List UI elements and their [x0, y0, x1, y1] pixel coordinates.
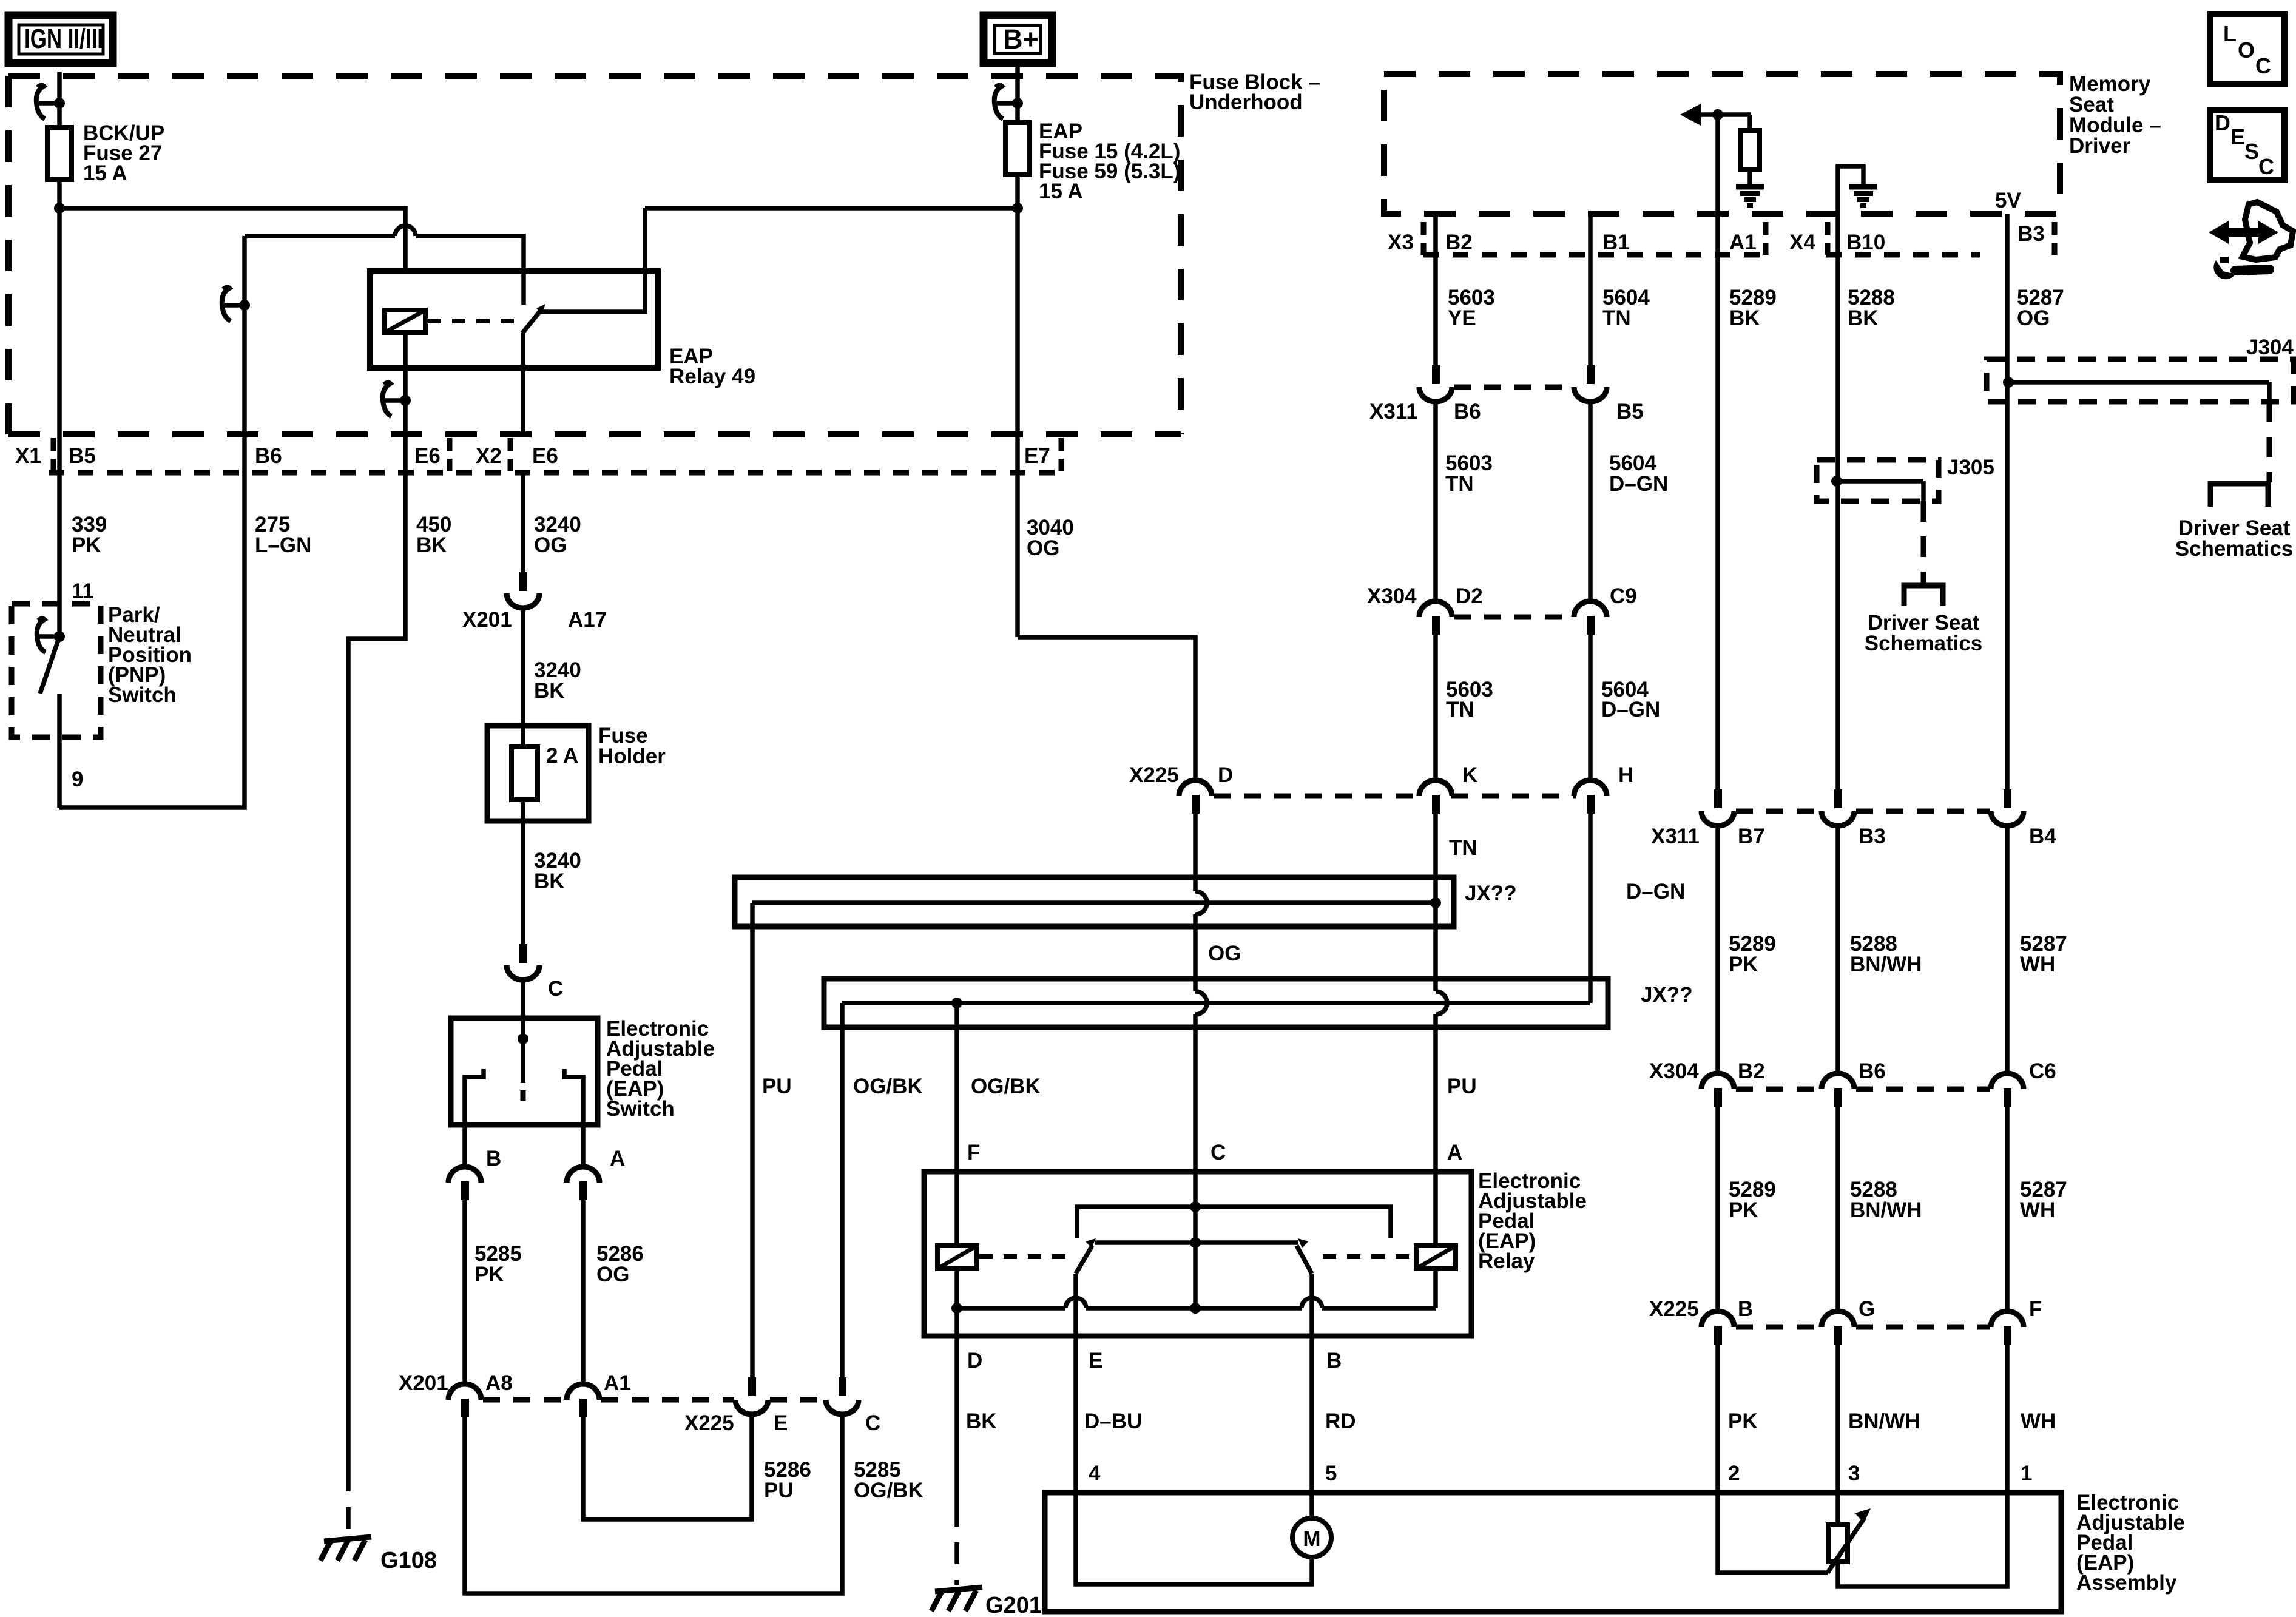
connector X311 B4 (bar + cup): [1991, 789, 2024, 826]
power tag B+: [984, 15, 1052, 63]
dashed line X311 B6-B5: [1454, 385, 1574, 390]
svg-text:B3: B3: [2017, 222, 2045, 246]
label 5604 D-GN: [1609, 451, 1668, 496]
bus bar 1 wire: [752, 900, 1436, 905]
svg-text:G201: G201: [985, 1593, 1042, 1617]
svg-text:D: D: [967, 1349, 982, 1372]
dashed link coil A to switch: [1323, 1254, 1414, 1259]
svg-text:Holder: Holder: [598, 744, 666, 768]
svg-text:B6: B6: [1859, 1059, 1886, 1083]
svg-text:J304: J304: [2246, 336, 2294, 359]
svg-text:OG: OG: [1208, 942, 1241, 965]
svg-text:X225: X225: [1649, 1297, 1699, 1321]
wire C: EAP fuse feed to relay: [645, 206, 1018, 211]
connector X225 E (bar + cup): [735, 1377, 768, 1414]
EAP switch right contact: [564, 1069, 583, 1125]
separator B3 right: [2052, 222, 2058, 255]
connector X304 C6 (arc + bar): [1991, 1073, 2024, 1107]
bus tap clip on 275 L-GN column: [222, 287, 250, 321]
label EAP Fuse 15 (4.2L) Fuse 59 (5.3L) 15 A: [1039, 120, 1180, 203]
dashed line X311 B7-B3: [1736, 809, 1821, 814]
svg-text:X4: X4: [1789, 231, 1815, 254]
svg-text:B6: B6: [1454, 400, 1481, 424]
label 5285 OG/BK: [854, 1458, 923, 1502]
label 5287 WH: [2020, 932, 2067, 976]
svg-text:D–GN: D–GN: [1626, 880, 1685, 903]
svg-text:Switch: Switch: [606, 1097, 675, 1121]
svg-text:G: G: [1859, 1297, 1875, 1321]
module internal resistor: [1740, 115, 1760, 185]
svg-text:JX??: JX??: [1465, 882, 1517, 905]
wire 5289 PK (X304 to X225 B): [1715, 1107, 1720, 1311]
svg-text:C9: C9: [1610, 584, 1637, 608]
node junction EAP fuse output: [1012, 203, 1023, 214]
bus tap clip at EAP fuse: [994, 85, 1023, 119]
label 5289 PK: [1729, 932, 1776, 976]
svg-text:K: K: [1462, 763, 1477, 787]
svg-text:X2: X2: [476, 444, 502, 468]
wire 5289 PK (X311 to X304): [1715, 825, 1720, 1073]
pedal adjust icon: pedal outline: [2243, 202, 2293, 260]
connector X225 B (arc + bar): [1701, 1311, 1734, 1345]
dashed wire to G201: [954, 1505, 959, 1585]
relay 49 output wire (pivot down): [521, 333, 525, 434]
J305 splice wire: [1831, 476, 1923, 501]
label 5603 YE: [1448, 286, 1495, 330]
svg-text:Switch: Switch: [108, 683, 177, 707]
svg-text:Relay: Relay: [1478, 1249, 1535, 1273]
label Fuse Block - Underhood: [1189, 70, 1320, 114]
label 5604 TN: [1602, 286, 1650, 330]
wire D-BU to assembly pin 4: [1073, 1336, 1078, 1493]
J304 splice wire: [2003, 377, 2269, 402]
power tag IGN II/III: [8, 15, 113, 63]
EAP relay blade tip link: [1095, 1207, 1298, 1308]
wire 5289 BK (A1 to X311 B7): [1715, 214, 1720, 789]
svg-text:BK: BK: [1848, 306, 1879, 330]
svg-text:F: F: [2029, 1297, 2042, 1321]
svg-text:Schematics: Schematics: [1865, 632, 1983, 655]
svg-text:B2: B2: [1738, 1059, 1765, 1083]
module internal ground (resistor): [1736, 187, 1764, 206]
svg-text:PK: PK: [474, 1263, 504, 1286]
ground G201: [931, 1587, 982, 1611]
svg-text:D: D: [2215, 110, 2230, 135]
wire PNP to 275 L-GN column: [59, 236, 245, 808]
EAP assembly box: [1045, 1493, 2061, 1612]
connector X304 D2 (arc + bar): [1419, 601, 1452, 635]
wire PU (K column to EAP relay pin A): [1433, 1014, 1438, 1172]
label 5289 PK (lower): [1729, 1178, 1776, 1222]
svg-text:A1: A1: [1729, 231, 1757, 254]
dashed line X225 K-H: [1451, 794, 1576, 799]
label 5286 OG: [596, 1242, 644, 1286]
svg-text:L: L: [2223, 21, 2237, 46]
wire fuse 27 to junction: [57, 180, 62, 432]
svg-text:D2: D2: [1456, 584, 1483, 608]
svg-text:F: F: [967, 1141, 980, 1164]
svg-text:WH: WH: [2020, 953, 2055, 976]
svg-text:X311: X311: [1651, 825, 1700, 848]
svg-text:S: S: [2244, 139, 2259, 164]
relay 49 coil-switch dashed link: [428, 319, 516, 323]
wire BN/WH to assembly pin 3: [1835, 1345, 1840, 1493]
label 339 PK: [72, 513, 107, 557]
wire connector C to EAP switch: [521, 979, 525, 1039]
svg-text:E7: E7: [1024, 444, 1050, 468]
wire switch pin A stub: [581, 1125, 586, 1166]
svg-text:D–GN: D–GN: [1601, 698, 1660, 721]
separator X2 right: [508, 438, 513, 471]
wire 5604 D-GN (X304 to X225 H): [1588, 635, 1593, 780]
dashed line X311 B3-B4: [1856, 809, 1990, 814]
hop D wire over bus bar 2 wire: [1195, 991, 1207, 1014]
wire A1 inside module: [1715, 115, 1720, 214]
wire 5287 WH (X304 to X225 F): [2005, 1107, 2010, 1311]
svg-text:BN/WH: BN/WH: [1850, 1198, 1922, 1222]
wire 5285 PK: [462, 1200, 467, 1383]
EAP relay coil F: [937, 1172, 977, 1269]
separator X2 left: [447, 438, 453, 471]
EAP relay box: [924, 1172, 1471, 1336]
label Electronic Adjustable Pedal (EAP) Relay: [1478, 1169, 1587, 1273]
svg-text:TN: TN: [1449, 836, 1477, 860]
PNP switch blade: [40, 636, 59, 694]
svg-text:PK: PK: [1728, 1409, 1758, 1433]
svg-text:D–GN: D–GN: [1609, 472, 1668, 496]
label 5285 PK: [474, 1242, 522, 1286]
pedal adjust icon: wrench: [2213, 257, 2269, 279]
wire 5287 OG (B3 to J304): [2005, 214, 2010, 382]
connector X304 B6 (arc + bar): [1822, 1073, 1854, 1107]
svg-text:B4: B4: [2029, 825, 2056, 848]
dashed line X225 D-K: [1214, 794, 1420, 799]
bus tap clip in PNP switch: [37, 618, 65, 652]
EAP relay left blade: [1076, 1238, 1096, 1274]
wire pin D (blade E down): [1073, 1274, 1078, 1336]
svg-text:O: O: [2238, 38, 2255, 62]
label 3240 BK (lower): [534, 849, 581, 893]
module internal ground (B10): [1838, 166, 1877, 214]
svg-text:15 A: 15 A: [83, 161, 127, 185]
dashed line X304 B2-B6: [1736, 1087, 1821, 1092]
wire 339 PK (B5 to PNP switch): [57, 432, 62, 638]
relay 49 coil: [385, 310, 425, 333]
wire IGN feed (x=98 top): [57, 72, 62, 127]
svg-text:OG/BK: OG/BK: [853, 1075, 923, 1098]
wire D column to EAP relay pin C: [1193, 1014, 1198, 1172]
module internal arrow (serial data): [1680, 104, 1751, 126]
connector X311 B3 (bar + cup): [1822, 789, 1854, 826]
svg-text:X201: X201: [462, 608, 512, 632]
connector X225 D (arc + bar): [1179, 780, 1212, 814]
wire WH to assembly pin 1: [2005, 1345, 2010, 1493]
connector X304 B2 (arc + bar): [1701, 1073, 1734, 1107]
svg-text:3: 3: [1848, 1462, 1860, 1485]
relay 49 switch blade: [522, 304, 545, 333]
svg-text:C: C: [548, 977, 563, 1001]
J305 dashed branch: [1921, 501, 1926, 586]
wire B: to relay switch contact: [245, 234, 395, 238]
label BCK/UP Fuse 27 15 A: [83, 121, 164, 185]
svg-text:A17: A17: [568, 608, 607, 632]
svg-text:IGN II/III: IGN II/III: [24, 23, 103, 54]
memory seat module dashed box: [1384, 74, 2060, 214]
svg-text:Assembly: Assembly: [2076, 1571, 2177, 1595]
wire 3040 OG down from EAP fuse: [1015, 175, 1020, 637]
wire 5287 OG (J304 to X311 B4): [2005, 382, 2010, 789]
fuse block underhood dashed box: [8, 76, 1181, 434]
svg-text:X1: X1: [15, 444, 41, 468]
svg-text:X311: X311: [1369, 400, 1418, 424]
hop D wire over bus bar 1 wire: [1195, 891, 1207, 914]
connector X201 A1 (arc + bar): [567, 1384, 599, 1417]
svg-text:OG: OG: [534, 533, 567, 557]
svg-text:JX??: JX??: [1641, 983, 1693, 1007]
EAP switch box: [451, 1018, 598, 1125]
module pin row bottom dashed line: [1423, 252, 1980, 258]
svg-text:YE: YE: [1448, 306, 1476, 330]
svg-text:E: E: [2230, 124, 2245, 149]
hop of wire B over coil wire: [395, 226, 416, 236]
dashed line A1 to X225 E: [601, 1397, 734, 1403]
EAP switch actuator: [521, 1039, 525, 1083]
separator X3: [1421, 222, 1427, 255]
svg-text:2: 2: [1728, 1462, 1740, 1485]
svg-text:D: D: [1218, 763, 1233, 787]
svg-text:5: 5: [1325, 1462, 1337, 1485]
svg-text:B2: B2: [1445, 231, 1473, 254]
svg-text:TN: TN: [1445, 472, 1474, 496]
svg-text:J305: J305: [1947, 456, 1994, 479]
wire F column (bar2 dot to EAP relay pin F): [954, 1003, 959, 1172]
wire 5288 BN/WH (X304 to X225 G): [1835, 1107, 1840, 1311]
fuse 2A symbol: [512, 747, 538, 800]
J305 off-page bracket: [1904, 586, 1943, 606]
svg-text:WH: WH: [2020, 1198, 2055, 1222]
svg-text:PK: PK: [1729, 953, 1758, 976]
svg-text:D–BU: D–BU: [1084, 1409, 1142, 1433]
wire switch pin B stub: [462, 1125, 467, 1166]
pedal adjust icon: double arrow: [2209, 221, 2278, 244]
dashed link coil F to switch: [979, 1254, 1065, 1259]
wire pin B (blade down): [1309, 1274, 1314, 1336]
connector X311 B7 (bar + cup): [1701, 789, 1734, 826]
wire D column to bus bar 1 (with hop): [1193, 814, 1198, 891]
wire A: fuse 27 to relay coil drop: [59, 208, 405, 271]
svg-text:M: M: [1303, 1527, 1320, 1551]
label 5289 BK: [1729, 286, 1777, 330]
EAP switch left contact: [465, 1069, 484, 1125]
wire RD to assembly pin 5: [1309, 1336, 1314, 1493]
wire relay output to X201 A17: [521, 473, 525, 572]
wire 5603 TN (X304 to X225 K): [1433, 635, 1438, 780]
node bus bar 1 / K column: [1430, 897, 1441, 908]
wire BK to G201: [954, 1336, 959, 1505]
svg-text:PU: PU: [764, 1479, 794, 1502]
svg-text:15 A: 15 A: [1039, 180, 1083, 203]
dashed line X304 B6-C6: [1856, 1087, 1990, 1092]
svg-text:PU: PU: [762, 1075, 792, 1098]
J304 off-page bracket: [2210, 484, 2268, 507]
svg-text:1: 1: [2021, 1462, 2032, 1485]
svg-text:E6: E6: [532, 444, 558, 468]
svg-text:L–GN: L–GN: [255, 533, 311, 557]
svg-text:C: C: [2255, 53, 2271, 78]
EAP relay C bus: [1077, 1172, 1391, 1238]
EAP relay lower bus: [951, 1269, 1436, 1314]
wire 3040 OG jog to X225 D: [1018, 637, 1195, 780]
svg-text:E: E: [1089, 1349, 1102, 1372]
svg-text:BK: BK: [534, 679, 565, 703]
label Fuse Holder: [598, 724, 666, 768]
node bus bar 2 / F column: [951, 998, 962, 1008]
motor return wire: [1076, 1493, 1312, 1584]
svg-text:TN: TN: [1602, 306, 1631, 330]
svg-text:A: A: [610, 1147, 625, 1170]
separator X1: [51, 438, 56, 471]
svg-text:4: 4: [1089, 1462, 1101, 1485]
svg-text:BK: BK: [966, 1409, 997, 1433]
label Electronic Adjustable Pedal (EAP) Switch: [606, 1017, 715, 1121]
svg-text:Schematics: Schematics: [2175, 537, 2294, 561]
wire 5603 YE (B2 to X311 B6): [1433, 214, 1438, 365]
svg-text:TN: TN: [1446, 698, 1474, 721]
svg-text:B: B: [1326, 1349, 1342, 1372]
wire 5287 WH (X311 to X304): [2005, 825, 2010, 1073]
svg-text:2 A: 2 A: [546, 744, 578, 768]
label Electronic Adjustable Pedal (EAP) Assembly: [2076, 1491, 2185, 1595]
wire PU column (bar1 to X225 E): [750, 903, 755, 1379]
svg-text:OG: OG: [596, 1263, 629, 1286]
svg-text:PK: PK: [1729, 1198, 1758, 1222]
connector X225 F (arc + bar): [1991, 1311, 2024, 1345]
connector X225 C (bar + cup): [826, 1377, 859, 1414]
wire fuse holder to connector C: [521, 821, 525, 944]
svg-text:B+: B+: [1003, 24, 1039, 55]
label 5288 BN/WH: [1850, 932, 1922, 976]
svg-text:X304: X304: [1367, 584, 1417, 608]
connector X311 B5 (bar + cup): [1574, 365, 1607, 402]
dashed line X201 A8-A1: [483, 1397, 565, 1403]
svg-text:X201: X201: [399, 1371, 448, 1395]
svg-text:B5: B5: [69, 444, 96, 468]
wire A1 to E (U link): [583, 1414, 752, 1519]
J304 dashed branch: [2267, 402, 2272, 482]
wire through fuse holder: [521, 726, 525, 747]
svg-text:B3: B3: [1859, 825, 1886, 848]
label 450 BK: [416, 513, 451, 557]
separator A1/X4: [1763, 222, 1769, 255]
dashed line X225 G-F: [1856, 1325, 1990, 1330]
fuse BCK/UP Fuse 27 15 A: [47, 127, 72, 180]
connector X201 A8 (arc + bar): [448, 1384, 481, 1417]
svg-text:A: A: [1447, 1141, 1462, 1164]
svg-text:E6: E6: [414, 444, 441, 468]
connector X201 A17 (bar + cup): [507, 572, 539, 608]
bus tap clip below relay coil: [383, 382, 411, 416]
wire 450 BK below row: [348, 434, 405, 1470]
connector below pin B (arc + bar): [448, 1167, 481, 1200]
node junction at (98,343): [54, 203, 65, 214]
fuse holder box: [487, 726, 589, 821]
connector X304 C9 (arc + bar): [1574, 601, 1607, 635]
potentiometer return wire: [1838, 1493, 2007, 1587]
connector below pin A (arc + bar): [567, 1167, 599, 1200]
svg-text:B10: B10: [1846, 231, 1885, 254]
svg-text:BN/WH: BN/WH: [1850, 953, 1922, 976]
wire 5288 BN/WH (X311 to X304): [1835, 825, 1840, 1073]
dashed line X304 D2-C9: [1454, 615, 1574, 620]
splice pack bus bar 1 outline: [735, 877, 1454, 927]
svg-text:C: C: [2258, 154, 2274, 179]
label Driver Seat Schematics (J304): [2175, 516, 2294, 561]
svg-text:BK: BK: [534, 869, 565, 893]
wire 5288 BK (B10 to J305): [1835, 214, 1840, 481]
potentiometer wiper arrow: [1718, 1493, 1871, 1573]
svg-text:BK: BK: [416, 533, 447, 557]
svg-text:A1: A1: [604, 1371, 631, 1395]
hop K wire over bus bar 2 wire: [1436, 991, 1447, 1014]
dashed line X225 B-G: [1736, 1325, 1821, 1330]
svg-text:B5: B5: [1616, 400, 1644, 424]
DESC box: [2210, 110, 2284, 180]
svg-text:OG: OG: [1027, 536, 1059, 560]
svg-text:PK: PK: [72, 533, 101, 557]
PNP switch dashed box: [12, 604, 101, 737]
fuse EAP Fuse 15/59 15 A: [1005, 123, 1030, 175]
motor M: [1292, 1493, 1331, 1557]
separator E7 right: [1059, 438, 1064, 471]
svg-text:PU: PU: [1447, 1075, 1477, 1098]
svg-text:B1: B1: [1602, 231, 1630, 254]
wire A8 to C (U link): [465, 1414, 842, 1593]
svg-text:B6: B6: [255, 444, 282, 468]
svg-text:5V: 5V: [1995, 189, 2021, 212]
svg-text:OG/BK: OG/BK: [971, 1075, 1041, 1098]
wire TN (K to bus bar 1): [1433, 814, 1438, 903]
svg-text:A8: A8: [485, 1371, 513, 1395]
svg-text:9: 9: [72, 768, 83, 791]
label 5287 OG: [2017, 286, 2064, 330]
svg-text:G108: G108: [380, 1548, 437, 1573]
ground G108: [320, 1537, 371, 1561]
wire B+ feed: [1015, 63, 1020, 123]
label 5288 BN/WH (lower): [1850, 1178, 1922, 1222]
wire coil to ground run (450 BK): [403, 333, 408, 434]
svg-text:C: C: [865, 1411, 880, 1435]
wire B continues to relay: [416, 236, 524, 271]
relay EAP Relay 49 box: [370, 271, 658, 368]
wire PK to assembly pin 2: [1715, 1345, 1720, 1493]
label 5287 WH (lower): [2020, 1178, 2067, 1222]
wire 5604 TN (B1 to X311 B5): [1588, 214, 1593, 365]
connector row bottom dashed line: [49, 470, 1063, 476]
EAP relay right blade: [1297, 1238, 1312, 1274]
connector X311 dashed box J304: [1987, 359, 2294, 402]
label 5603 TN (lower): [1446, 678, 1493, 721]
label 275 L-GN: [255, 513, 311, 557]
LOC box: [2210, 14, 2284, 84]
label 3040 OG: [1027, 516, 1074, 560]
label Driver Seat Schematics (J305): [1865, 611, 1983, 655]
label Park/Neutral Position (PNP) Switch: [108, 603, 192, 707]
bus bar 2 wire: [842, 1001, 1590, 1005]
label EAP Relay 49: [669, 345, 755, 388]
svg-text:B: B: [486, 1147, 501, 1170]
svg-text:11: 11: [72, 579, 94, 603]
label Memory Seat Module - Driver: [2069, 72, 2161, 158]
